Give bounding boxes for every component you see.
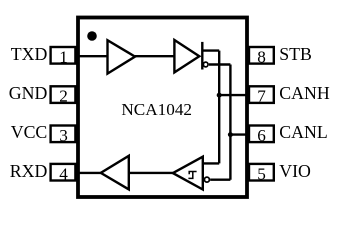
driver U1B triangle <box>174 40 199 72</box>
wire buffer to RXD pin <box>76 172 101 174</box>
pin 5 box <box>249 164 274 183</box>
wire to receiver bubble input <box>210 178 230 180</box>
wire driver CANH output <box>202 49 219 51</box>
svg-text:6: 6 <box>257 126 266 145</box>
svg-text:GND: GND <box>9 83 48 103</box>
svg-text:3: 3 <box>59 126 68 145</box>
svg-text:5: 5 <box>257 164 266 183</box>
pin 3 box <box>51 126 76 145</box>
svg-text:7: 7 <box>257 87 266 106</box>
wire CANL vertical <box>229 65 231 180</box>
hysteresis symbol <box>188 172 196 179</box>
buffer U1A (TXD input) <box>108 40 136 73</box>
svg-text:TXD: TXD <box>11 44 48 64</box>
wire CANH to pin 7 <box>219 94 248 96</box>
svg-text:NCA1042: NCA1042 <box>121 100 192 119</box>
junction node CANL <box>228 132 233 137</box>
wire to receiver top input <box>203 162 219 164</box>
svg-text:2: 2 <box>59 87 68 106</box>
pin 4 box <box>51 164 76 183</box>
svg-text:4: 4 <box>59 164 68 183</box>
svg-text:RXD: RXD <box>10 161 48 181</box>
pin-1 marker dot <box>87 31 97 41</box>
receiver input bubble <box>204 177 209 182</box>
wire receiver to output buffer <box>129 172 173 174</box>
wire CANL to pin 6 <box>230 133 248 135</box>
wire CANH vertical <box>218 51 220 164</box>
junction node CANH <box>217 93 222 98</box>
svg-text:CANL: CANL <box>279 122 327 142</box>
svg-text:VIO: VIO <box>279 161 311 181</box>
svg-text:CANH: CANH <box>279 83 330 103</box>
driver inverted output bubble <box>203 62 208 67</box>
svg-text:8: 8 <box>257 48 266 67</box>
wire TXD pin to buffer <box>76 55 108 57</box>
IC body U1 <box>78 18 247 198</box>
wire driver CANL output <box>209 63 231 65</box>
svg-text:VCC: VCC <box>11 122 48 142</box>
driver output bar <box>201 42 203 70</box>
svg-text:STB: STB <box>279 44 312 64</box>
receiver U1C Schmitt trigger <box>173 157 203 190</box>
pin 1 box <box>51 47 76 67</box>
wire buffer to driver <box>135 55 174 57</box>
pin 7 box <box>249 86 274 105</box>
svg-text:1: 1 <box>59 48 68 67</box>
buffer U1D (RXD output) <box>101 156 129 190</box>
pin 6 box <box>249 126 274 145</box>
pin 2 box <box>51 86 76 105</box>
pin 8 box <box>249 47 274 67</box>
